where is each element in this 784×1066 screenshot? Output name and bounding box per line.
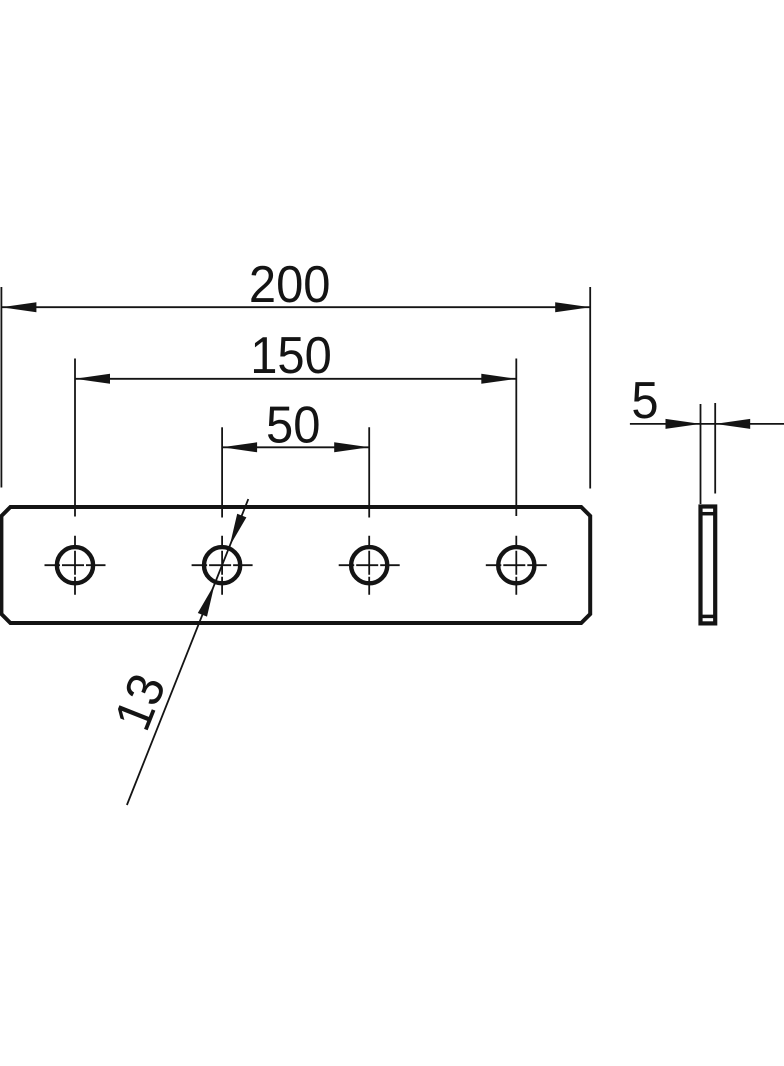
svg-text:150: 150 <box>250 327 332 384</box>
svg-text:50: 50 <box>266 396 320 453</box>
svg-text:200: 200 <box>249 256 331 313</box>
svg-text:5: 5 <box>631 372 658 429</box>
